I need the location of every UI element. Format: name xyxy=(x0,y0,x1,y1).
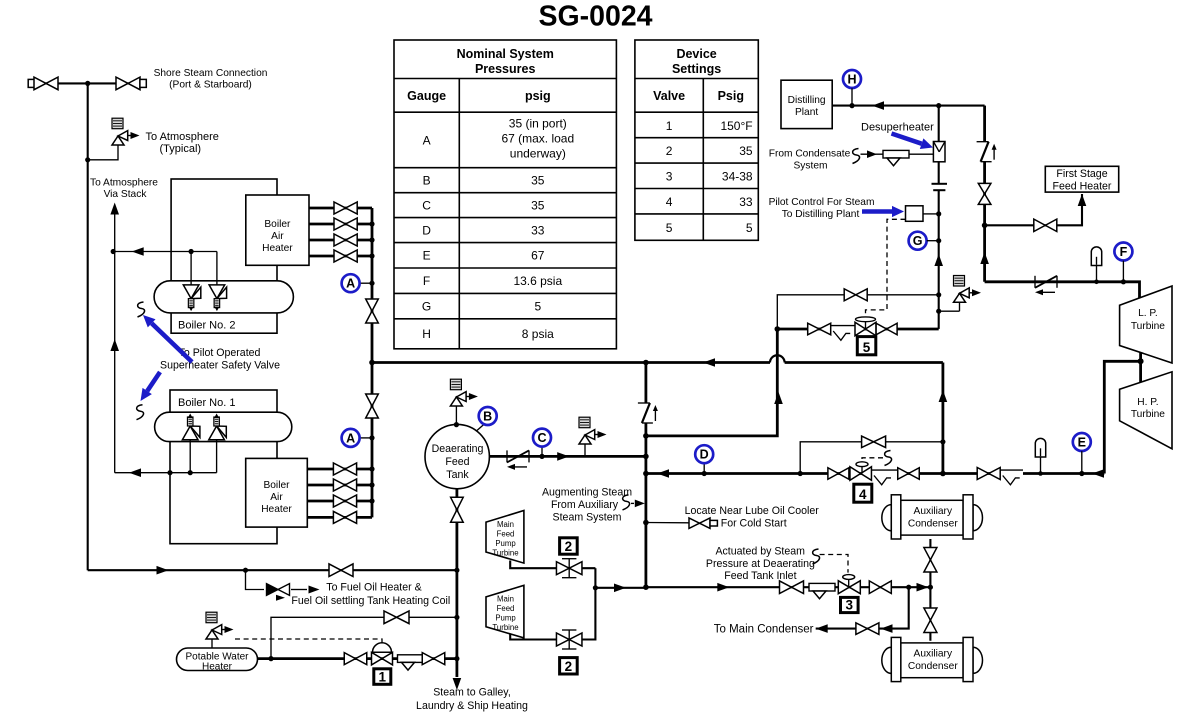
relief valve deaerating tank xyxy=(450,379,461,390)
gauge circle H xyxy=(843,70,861,88)
svg-text:Valve: Valve xyxy=(653,89,685,103)
node bus tees lower xyxy=(369,466,374,471)
table: Device Settings xyxy=(635,40,758,240)
wire boiler2 safety drops xyxy=(190,252,192,286)
safety valve boiler2 #2 xyxy=(209,285,225,299)
relief valve to atmosphere (typical) xyxy=(88,145,118,160)
node galley tee xyxy=(454,568,459,573)
gauge circle F xyxy=(1114,243,1132,261)
first stage feed heater box xyxy=(1045,166,1118,192)
wire crossover 435.9 xyxy=(646,329,777,436)
wire boiler2 heater outlet 1 xyxy=(309,207,372,210)
gauge circle E xyxy=(1073,433,1091,451)
gauge circle A (upper) xyxy=(360,282,372,284)
valve galley line xyxy=(451,497,464,522)
svg-text:35: 35 xyxy=(739,144,753,158)
wire header drop to D line xyxy=(942,363,945,474)
control signal dashed valve 4 xyxy=(862,458,883,462)
svg-text:Boiler No. 2: Boiler No. 2 xyxy=(178,320,235,332)
valve aux steam line xyxy=(329,564,353,577)
callout arrow pilot control xyxy=(862,209,892,214)
svg-text:Steam System: Steam System xyxy=(553,512,622,524)
callout arrow boiler1 pigtail xyxy=(147,372,160,391)
control signal dashed pilot to valve 5 xyxy=(866,219,906,316)
boiler No.2 steam drum xyxy=(154,281,293,313)
main feed pump turbine (upper) xyxy=(486,511,524,564)
svg-text:Locate Near Lube Oil Cooler: Locate Near Lube Oil Cooler xyxy=(685,505,820,517)
pressure reducing valve 1 xyxy=(373,643,392,653)
check tail 4-line xyxy=(872,469,898,471)
svg-text:Pressure at Deaerating: Pressure at Deaerating xyxy=(706,558,815,570)
wire steam to galley xyxy=(455,489,458,677)
valve bus upper xyxy=(366,299,379,323)
svg-text:Pump: Pump xyxy=(495,539,516,548)
svg-text:A: A xyxy=(346,277,355,291)
svg-text:33: 33 xyxy=(739,195,753,209)
L.P. turbine xyxy=(1120,286,1172,363)
svg-text:1: 1 xyxy=(379,669,387,684)
valve 2 lower xyxy=(556,633,582,646)
svg-text:Main: Main xyxy=(497,520,514,529)
svg-text:E: E xyxy=(423,249,431,263)
valve fuel oil stop-check xyxy=(267,584,279,596)
valve bypass 5 xyxy=(844,289,867,301)
valve fuel oil heating xyxy=(384,611,409,624)
wire boiler2 heater outlet 4 xyxy=(309,255,372,258)
svg-text:To Atmosphere: To Atmosphere xyxy=(146,131,219,143)
svg-text:8 psia: 8 psia xyxy=(522,327,554,341)
svg-text:Feed Tank Inlet: Feed Tank Inlet xyxy=(724,570,796,582)
boiler No.1 casing xyxy=(170,390,277,544)
pigtail boiler2 drum xyxy=(138,302,145,317)
valve heater outlet b1-3 xyxy=(333,495,356,507)
svg-text:Main: Main xyxy=(497,595,514,604)
valve condenser column lower xyxy=(924,608,937,633)
svg-text:D: D xyxy=(422,224,431,238)
valve shore connection port xyxy=(28,79,34,87)
wire aux exhaust line xyxy=(646,586,931,588)
table: Nominal System Pressures xyxy=(394,40,616,349)
svg-text:F: F xyxy=(423,274,430,288)
svg-text:Gauge: Gauge xyxy=(407,89,446,103)
valve 4-line gate 2 xyxy=(898,468,920,480)
svg-text:150°F: 150°F xyxy=(720,119,752,133)
main feed pump turbine (lower) xyxy=(486,585,524,638)
svg-text:35: 35 xyxy=(531,174,545,188)
wire boiler1 heater outlet 2 xyxy=(307,484,372,487)
wire cold start branch xyxy=(646,522,689,524)
pigtail boiler1 drum xyxy=(137,405,144,420)
check tail 5-line xyxy=(831,325,855,327)
svg-text:Turbine: Turbine xyxy=(1131,409,1165,420)
svg-text:Steam to Galley,: Steam to Galley, xyxy=(433,687,511,699)
valve bypass 4 xyxy=(862,436,886,448)
valve bus lower xyxy=(366,394,379,418)
node D-line riser tee xyxy=(940,471,946,477)
H.P. turbine xyxy=(1120,372,1172,449)
control valve 4 xyxy=(850,467,872,481)
wire fuel oil branch xyxy=(246,570,265,589)
svg-text:D: D xyxy=(700,448,709,462)
svg-text:G: G xyxy=(913,234,923,248)
node shore tee xyxy=(85,81,90,86)
svg-text:To Distilling Plant: To Distilling Plant xyxy=(782,209,860,220)
svg-text:67 (max. load: 67 (max. load xyxy=(501,132,574,146)
pigtail augmenting steam xyxy=(623,495,630,510)
svg-text:35 (in port): 35 (in port) xyxy=(509,117,567,131)
wire auxiliary steam D line xyxy=(646,472,872,475)
valve potable line outlet xyxy=(422,653,445,665)
wire bypass 4 xyxy=(800,442,943,474)
svg-text:Laundry & Ship Heating: Laundry & Ship Heating xyxy=(416,700,528,712)
water seal bars xyxy=(932,183,948,185)
pipe bridge over riser xyxy=(770,355,785,362)
relief valve desuperheater column xyxy=(939,310,960,312)
svg-text:Turbine: Turbine xyxy=(492,623,518,632)
svg-text:B: B xyxy=(423,174,431,188)
wire aux steam supply line xyxy=(88,569,457,571)
valve heater outlet b1-2 xyxy=(333,479,356,491)
check valve tank inlet xyxy=(506,450,508,462)
svg-text:Turbine: Turbine xyxy=(492,549,518,558)
gauge circle C xyxy=(541,447,543,456)
wire to main condenser xyxy=(816,587,909,628)
svg-text:To Pilot Operated: To Pilot Operated xyxy=(179,347,261,359)
node riser-435.9 xyxy=(643,433,649,439)
pigtail valve 4 xyxy=(885,451,892,466)
node bus tees upper xyxy=(369,221,374,226)
svg-text:L. P.: L. P. xyxy=(1138,308,1158,319)
desuperheater xyxy=(933,142,945,162)
svg-text:Device: Device xyxy=(676,47,716,61)
pigtail condensate xyxy=(853,149,860,164)
svg-text:Deaerating: Deaerating xyxy=(432,443,484,455)
svg-text:4: 4 xyxy=(666,195,673,209)
boiler No.2 casing xyxy=(171,179,277,333)
valve heater outlet b2-1 xyxy=(334,202,357,214)
valve shore connection starboard xyxy=(116,77,140,90)
pilot control box xyxy=(906,206,924,222)
node riser-D line xyxy=(643,471,649,477)
svg-text:34-38: 34-38 xyxy=(722,170,753,184)
gauge circle G xyxy=(909,232,927,250)
auxiliary condenser (upper) xyxy=(882,505,891,531)
control signal dashed valve 3 xyxy=(820,555,848,573)
wire steam bus riser xyxy=(371,208,374,363)
svg-text:Feed: Feed xyxy=(497,530,515,539)
valve heater outlet b1-1 xyxy=(333,463,356,475)
node first stage tee xyxy=(982,223,988,229)
valve 5-line gate 2 xyxy=(876,323,897,335)
svg-text:Heater: Heater xyxy=(261,504,292,515)
wire main steam header xyxy=(372,361,770,364)
wire LP turbine supply xyxy=(985,282,1140,298)
svg-text:Plant: Plant xyxy=(795,107,818,118)
svg-text:(Typical): (Typical) xyxy=(160,143,202,155)
svg-text:Distilling: Distilling xyxy=(788,95,826,106)
wire desuperheater column xyxy=(938,106,940,142)
wire boiler1 heater outlet 3 xyxy=(307,500,372,503)
wire bypass 5 xyxy=(777,295,938,329)
svg-text:Condenser: Condenser xyxy=(908,519,958,530)
svg-text:Feed: Feed xyxy=(497,604,515,613)
wire boiler2 safety vent header xyxy=(113,251,217,253)
svg-text:33: 33 xyxy=(531,224,545,238)
svg-text:Pressures: Pressures xyxy=(475,62,536,76)
svg-text:Pilot Control For Steam: Pilot Control For Steam xyxy=(769,197,875,208)
wire boiler2 heater outlet 3 xyxy=(309,239,372,242)
svg-text:psig: psig xyxy=(525,89,551,103)
callout arrow desuperheater xyxy=(892,134,922,144)
wire boiler1 safety vent header xyxy=(115,472,217,474)
wire boiler1 heater outlet 4 xyxy=(307,516,372,519)
potable water heater xyxy=(177,648,258,671)
svg-text:E: E xyxy=(1078,436,1086,450)
relief valve potable heater xyxy=(206,612,217,623)
svg-text:From Condensate: From Condensate xyxy=(769,148,851,159)
callout arrow boiler2 pigtail xyxy=(152,323,192,362)
svg-text:Boiler No. 1: Boiler No. 1 xyxy=(178,397,235,409)
wire tank steam inlet (C line) xyxy=(489,455,646,458)
svg-text:Condenser: Condenser xyxy=(908,661,958,672)
svg-text:H: H xyxy=(422,327,431,341)
svg-text:2: 2 xyxy=(565,659,573,674)
safety valve boiler1 #1 xyxy=(182,426,198,440)
strainer potable line xyxy=(398,655,424,663)
svg-text:13.6 psia: 13.6 psia xyxy=(513,274,562,288)
wire desuperheated steam riser xyxy=(983,106,986,142)
strainer condensate line xyxy=(883,150,909,158)
svg-text:G: G xyxy=(422,300,431,314)
svg-text:Via Stack: Via Stack xyxy=(104,189,148,200)
pigtail valve 3 xyxy=(813,549,820,564)
wire fuel oil heating line xyxy=(271,617,457,658)
svg-text:System: System xyxy=(794,160,828,171)
svg-text:Heater: Heater xyxy=(262,243,293,254)
distilling plant box xyxy=(781,80,832,128)
svg-text:4: 4 xyxy=(859,487,867,502)
thermometer F line xyxy=(1091,247,1101,266)
valve 4-line gate 1 xyxy=(828,468,849,480)
auxiliary condenser (lower) xyxy=(882,647,892,673)
wire MFPT exhaust to riser xyxy=(594,568,596,588)
svg-text:Superheater Safety Valve: Superheater Safety Valve xyxy=(160,360,280,372)
atmosphere escape symbol right xyxy=(977,141,989,143)
valve potable line inlet xyxy=(344,653,367,665)
wire condensate to desuperheater xyxy=(861,153,934,155)
control valve 5 xyxy=(855,322,876,336)
svg-text:Pump: Pump xyxy=(495,614,516,623)
svg-text:Augmenting Steam: Augmenting Steam xyxy=(542,487,632,499)
svg-text:2: 2 xyxy=(666,144,673,158)
check valve LP supply xyxy=(1034,276,1036,288)
wire distilling steam line 5 xyxy=(777,328,831,331)
valve heater outlet b2-3 xyxy=(334,234,357,246)
svg-text:Desuperheater: Desuperheater xyxy=(861,122,934,134)
valve condenser column upper xyxy=(924,548,937,573)
svg-text:Air: Air xyxy=(270,492,283,503)
svg-text:35: 35 xyxy=(531,199,545,213)
svg-text:Tank: Tank xyxy=(446,469,469,481)
svg-text:SG-0024: SG-0024 xyxy=(538,1,652,33)
svg-text:1: 1 xyxy=(666,119,673,133)
valve heater outlet b1-4 xyxy=(333,511,356,523)
svg-text:(Port & Starboard): (Port & Starboard) xyxy=(169,80,252,91)
wire first stage feed heater branch xyxy=(985,194,1082,225)
svg-text:Turbine: Turbine xyxy=(1131,321,1165,332)
valve cold start xyxy=(689,518,710,529)
control signal dashed line valve 1 xyxy=(235,639,382,644)
svg-text:Fuel Oil settling Tank Heating: Fuel Oil settling Tank Heating Coil xyxy=(291,595,450,607)
svg-text:Settings: Settings xyxy=(672,62,721,76)
svg-text:B: B xyxy=(483,410,492,424)
relief valve C line xyxy=(579,417,590,428)
svg-text:underway): underway) xyxy=(510,147,566,161)
svg-text:H. P.: H. P. xyxy=(1137,397,1158,408)
valve heater outlet b2-4 xyxy=(334,250,357,262)
wire potable steam line xyxy=(258,657,457,660)
svg-text:To Fuel Oil Heater &: To Fuel Oil Heater & xyxy=(326,582,421,594)
svg-text:To Atmosphere: To Atmosphere xyxy=(90,178,158,189)
wire distilling supply xyxy=(832,105,984,107)
svg-text:5: 5 xyxy=(863,340,871,355)
svg-text:Nominal System: Nominal System xyxy=(457,47,554,61)
svg-text:For Cold Start: For Cold Start xyxy=(721,518,787,530)
svg-text:Boiler: Boiler xyxy=(264,219,291,230)
svg-text:3: 3 xyxy=(666,170,673,184)
safety valve boiler1 #2 xyxy=(209,426,225,440)
svg-text:Air: Air xyxy=(271,231,284,242)
thermometer E line xyxy=(1035,438,1045,457)
wire shore steam header xyxy=(34,82,141,84)
wire stack vent line xyxy=(114,206,116,473)
svg-text:C: C xyxy=(422,199,431,213)
wire aux steam riser 646 xyxy=(645,363,648,404)
wire turbine crossover to E line xyxy=(1104,361,1140,473)
svg-text:3: 3 xyxy=(846,598,854,613)
boiler air heater (upper) xyxy=(246,195,309,265)
safety valve boiler2 #1 xyxy=(183,285,199,299)
node riser-C line xyxy=(643,454,649,460)
svg-text:2: 2 xyxy=(565,539,573,554)
valve 3-line gate 2 xyxy=(869,581,891,594)
svg-text:Feed Heater: Feed Heater xyxy=(1053,180,1112,192)
svg-text:A: A xyxy=(346,431,355,445)
node fuel-oil branch tee xyxy=(243,568,248,573)
svg-text:67: 67 xyxy=(531,249,545,263)
svg-text:Auxiliary: Auxiliary xyxy=(914,649,953,660)
atmosphere escape symbol riser xyxy=(638,402,650,404)
svg-text:H: H xyxy=(847,73,856,87)
svg-text:Auxiliary: Auxiliary xyxy=(914,506,953,517)
svg-text:Shore Steam Connection: Shore Steam Connection xyxy=(154,68,268,79)
gauge circle D xyxy=(703,463,705,474)
wire shore steam down main xyxy=(87,83,89,570)
deaerating feed tank xyxy=(425,424,489,488)
valve 3-line gate 1 xyxy=(780,581,804,594)
svg-text:C: C xyxy=(537,431,546,445)
svg-text:5: 5 xyxy=(666,221,673,235)
valve heater outlet b2-2 xyxy=(334,218,357,230)
wire boiler1 safety drops xyxy=(189,440,191,473)
wire boiler1 heater outlet 1 xyxy=(307,468,372,471)
wire LP exhaust / HP inlet xyxy=(1139,353,1142,383)
check tail E line xyxy=(1000,469,1023,471)
svg-text:5: 5 xyxy=(534,300,541,314)
node riser-cold start xyxy=(643,520,649,526)
svg-text:Boiler: Boiler xyxy=(263,480,290,491)
svg-text:From Auxiliary: From Auxiliary xyxy=(551,499,619,511)
svg-text:A: A xyxy=(423,134,431,148)
svg-text:Feed: Feed xyxy=(445,456,469,468)
svg-text:Heater: Heater xyxy=(202,662,233,673)
strainer 3 line xyxy=(809,583,835,591)
valve 5-line gate 1 xyxy=(808,323,831,335)
wire condenser column xyxy=(929,539,931,641)
wire MFPT upper exhaust xyxy=(510,561,595,569)
wire steam bus lower xyxy=(371,363,374,518)
valve 2 upper xyxy=(556,562,582,575)
wire MFPT lower exhaust xyxy=(510,588,595,640)
svg-text:Psig: Psig xyxy=(718,89,744,103)
svg-text:Actuated by Steam: Actuated by Steam xyxy=(715,546,805,558)
gauge circle B xyxy=(477,425,484,431)
valve E line xyxy=(977,468,1000,480)
svg-text:To Main Condenser: To Main Condenser xyxy=(714,624,814,636)
boiler air heater (lower) xyxy=(246,458,308,527)
gauge circle A (lower) xyxy=(360,437,372,439)
valve right riser xyxy=(978,183,991,204)
valve main condenser branch xyxy=(856,623,879,635)
svg-text:5: 5 xyxy=(746,221,753,235)
boiler No.1 steam drum xyxy=(155,412,292,441)
valve first stage branch xyxy=(1034,219,1057,231)
svg-text:First Stage: First Stage xyxy=(1056,168,1107,180)
svg-text:F: F xyxy=(1120,245,1128,259)
wire boiler2 heater outlet 2 xyxy=(309,223,372,226)
control valve 3 xyxy=(838,581,860,594)
